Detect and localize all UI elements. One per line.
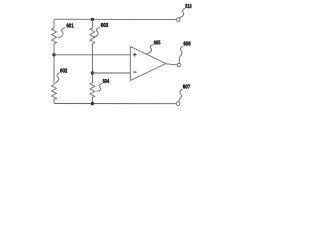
- terminal 608: [177, 63, 181, 67]
- junction node at inverting branch: [91, 71, 94, 74]
- label 604: [103, 79, 110, 85]
- wire op-amp output: [166, 64, 177, 65]
- terminal 610: [177, 18, 181, 22]
- wire left rail middle: [53, 44, 55, 85]
- junction node at bottom rail: [91, 102, 94, 105]
- leader to resistor 602: [56, 73, 60, 83]
- wire middle branch upper: [91, 19, 93, 27]
- leader to op-amp 605: [147, 45, 154, 54]
- label 610: [185, 4, 191, 10]
- label 603: [101, 23, 109, 29]
- terminal 607: [176, 102, 180, 106]
- label 608: [183, 42, 191, 48]
- resistor 601: [52, 28, 57, 44]
- svg-text:605: 605: [154, 40, 161, 46]
- resistor 604: [90, 83, 95, 98]
- op-amp 605: [130, 47, 166, 81]
- svg-text:602: 602: [60, 68, 67, 74]
- label 607: [183, 85, 191, 91]
- wire top rail: [54, 19, 176, 28]
- leader to resistor 604: [97, 83, 102, 91]
- svg-text:610: 610: [185, 4, 191, 10]
- plus input marking: [133, 53, 136, 56]
- leader to resistor 601: [58, 28, 64, 38]
- svg-text:607: 607: [183, 85, 191, 91]
- wire middle branch mid: [91, 44, 93, 83]
- junction node at top rail: [91, 18, 94, 21]
- wire middle branch lower: [91, 98, 93, 104]
- wire noninverting input: [54, 54, 130, 56]
- svg-text:608: 608: [183, 42, 191, 48]
- leader to terminal 607: [179, 89, 182, 101]
- leader to terminal 608: [179, 46, 183, 62]
- svg-text:604: 604: [103, 79, 110, 85]
- junction node at left rail: [52, 53, 55, 56]
- resistor 602: [52, 85, 57, 100]
- minus input marking: [133, 71, 136, 73]
- resistor 603: [90, 28, 95, 44]
- wire inverting input: [92, 72, 130, 74]
- label 605: [154, 40, 161, 46]
- leader to terminal 610: [179, 9, 185, 18]
- label 601: [66, 24, 74, 30]
- svg-text:603: 603: [101, 23, 109, 29]
- svg-text:601: 601: [66, 24, 74, 30]
- wire left rail bottom: [54, 100, 176, 104]
- leader to resistor 603: [94, 27, 100, 37]
- label 602: [60, 68, 67, 74]
